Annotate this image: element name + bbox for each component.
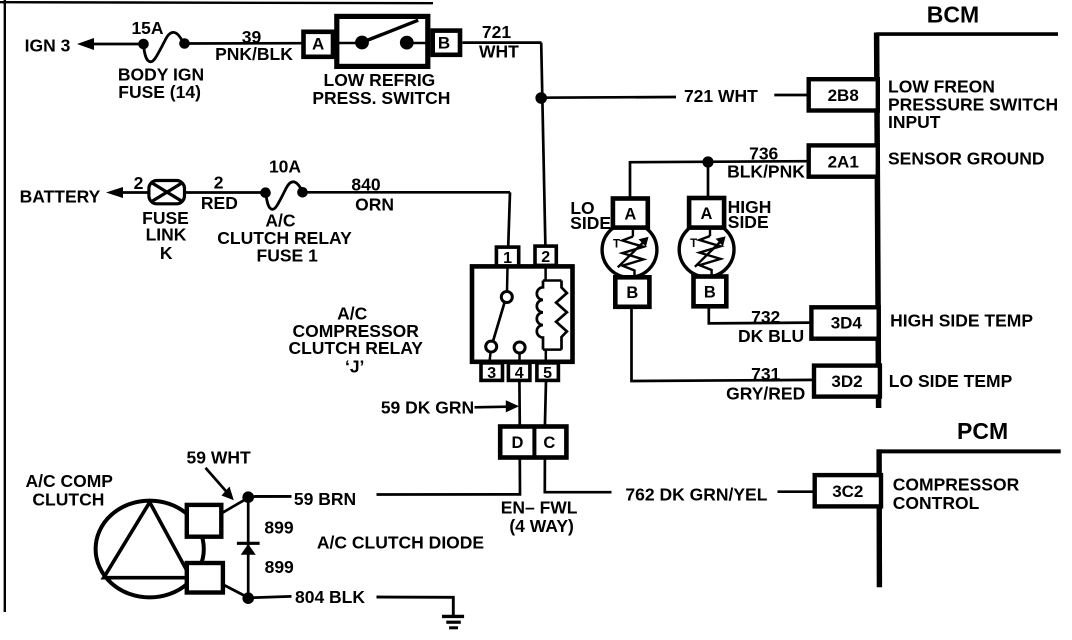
connector 2A1: [809, 145, 878, 176]
svg-text:721 WHT: 721 WHT: [684, 86, 758, 106]
svg-text:59 DK GRN: 59 DK GRN: [381, 398, 474, 418]
label COMPRESSOR CONTROL: [893, 475, 1020, 513]
relay switch blade: [493, 302, 505, 341]
svg-text:FUSE 1: FUSE 1: [257, 246, 319, 266]
wire contact to pin 4: [518, 353, 521, 363]
label A/C COMP CLUTCH: [25, 471, 113, 509]
wire IGN3 to fuse: [92, 43, 144, 46]
wire D down: [377, 458, 521, 495]
wire 59 BRN left segment from junction: [248, 495, 291, 498]
svg-text:B: B: [438, 34, 450, 53]
svg-text:2: 2: [541, 249, 550, 266]
svg-text:59 BRN: 59 BRN: [294, 489, 356, 509]
connector 2B8: [809, 79, 878, 110]
svg-text:899: 899: [264, 517, 293, 537]
svg-text:SIDE: SIDE: [570, 213, 611, 233]
wire to HIGH side sensor: [707, 162, 710, 198]
svg-text:WHT: WHT: [479, 42, 519, 62]
compressor clutch: [96, 501, 223, 598]
connector 3C2: [815, 475, 881, 506]
svg-text:‘J’: ‘J’: [345, 357, 364, 377]
svg-text:IGN 3: IGN 3: [25, 35, 71, 55]
wire pin1 to contact: [506, 266, 509, 291]
wire 59 BRN: [255, 489, 357, 509]
relay contact top: [501, 292, 512, 303]
svg-text:3D2: 3D2: [831, 372, 862, 391]
wire 736 BLK/PNK: [630, 144, 809, 182]
svg-text:RED: RED: [201, 193, 238, 213]
label LOW FREON PRESSURE SWITCH INPUT: [888, 77, 1058, 132]
svg-text:K: K: [160, 243, 173, 263]
svg-text:COMPRESSOR: COMPRESSOR: [893, 475, 1020, 495]
wire pin2 to coil: [544, 265, 547, 280]
svg-text:LINK: LINK: [146, 225, 187, 245]
wire 39 PNK/BLK: [185, 27, 304, 64]
svg-text:804 BLK: 804 BLK: [295, 587, 365, 607]
svg-text:59 WHT: 59 WHT: [187, 447, 251, 467]
svg-text:3C2: 3C2: [832, 482, 863, 501]
wire pin 5 to connector C: [545, 380, 546, 426]
svg-text:CLUTCH: CLUTCH: [32, 489, 104, 509]
wire coil to pin 5: [545, 350, 548, 363]
label A/C COMPRESSOR CLUTCH RELAY 'J': [288, 303, 423, 376]
svg-text:GRY/RED: GRY/RED: [726, 384, 805, 404]
label HIGH SIDE: [728, 197, 772, 232]
svg-text:A/C COMP: A/C COMP: [25, 471, 113, 491]
svg-text:SIDE: SIDE: [728, 212, 769, 232]
sensor LO side: [602, 199, 657, 307]
ground: [442, 616, 464, 627]
svg-text:BATTERY: BATTERY: [20, 186, 101, 206]
svg-text:PRESS. SWITCH: PRESS. SWITCH: [312, 88, 450, 108]
svg-text:INPUT: INPUT: [888, 112, 941, 132]
svg-text:899: 899: [265, 557, 294, 577]
node junction 736: [702, 156, 713, 167]
svg-text:BLK/PNK: BLK/PNK: [727, 162, 805, 182]
svg-text:BCM: BCM: [927, 1, 979, 27]
PCM boundary: [877, 449, 1061, 587]
switch LOW REFRIG PRESS. SWITCH: [304, 16, 461, 107]
svg-text:T: T: [690, 238, 697, 250]
svg-text:840: 840: [351, 175, 380, 195]
relay contact lower-left: [486, 341, 497, 352]
svg-text:T: T: [613, 239, 620, 251]
svg-text:EN– FWL: EN– FWL: [501, 498, 578, 518]
wire to LO side sensor: [629, 161, 632, 199]
node diode bottom junction: [242, 592, 254, 604]
svg-text:A/C CLUTCH DIODE: A/C CLUTCH DIODE: [317, 533, 484, 553]
wire upper terminal to diode node: [221, 497, 249, 513]
node diode top junction: [242, 491, 254, 503]
svg-text:D: D: [511, 434, 523, 452]
relay pin 5: [537, 363, 559, 382]
svg-text:B: B: [626, 284, 638, 302]
wire 732 DK BLU: [709, 306, 812, 346]
wire 721 WHT from switch: [462, 22, 541, 61]
wire 2 RED: [185, 173, 266, 214]
svg-text:2: 2: [214, 173, 224, 193]
relay pin 1: [496, 247, 518, 267]
connector 3D2: [814, 366, 880, 397]
node IGN 3: [25, 35, 94, 55]
svg-text:C: C: [543, 434, 555, 452]
svg-text:ORN: ORN: [355, 195, 394, 215]
svg-text:CLUTCH RELAY: CLUTCH RELAY: [288, 338, 423, 358]
wire lower terminal to diode node: [223, 585, 249, 599]
svg-text:A: A: [624, 205, 636, 223]
svg-text:PNK/BLK: PNK/BLK: [215, 44, 293, 64]
connector 3D4: [811, 307, 878, 338]
node BATTERY: [20, 186, 123, 206]
wire 840 ORN: [303, 175, 511, 215]
svg-text:15A: 15A: [131, 18, 163, 38]
svg-text:SENSOR GROUND: SENSOR GROUND: [888, 149, 1045, 169]
svg-text:B: B: [704, 283, 716, 301]
svg-text:HIGH SIDE TEMP: HIGH SIDE TEMP: [890, 311, 1033, 331]
relay coil: [537, 281, 567, 350]
fuse BODY IGN FUSE (14) 15A: [118, 18, 204, 102]
node junction 721: [535, 92, 547, 104]
svg-text:5: 5: [543, 365, 552, 382]
svg-text:2: 2: [134, 173, 144, 193]
label 59 DK GRN with arrow: [381, 398, 519, 418]
fuse A/C CLUTCH RELAY FUSE 1 10A: [217, 156, 352, 265]
svg-text:2A1: 2A1: [828, 152, 859, 171]
svg-text:3D4: 3D4: [831, 313, 863, 332]
label LO SIDE: [570, 198, 611, 233]
wire 762 DK GRN/YEL: [625, 485, 813, 505]
svg-text:(4 WAY): (4 WAY): [509, 516, 574, 536]
svg-text:10A: 10A: [269, 156, 301, 176]
relay pin 4: [508, 363, 530, 382]
svg-text:PCM: PCM: [957, 418, 1008, 444]
connector EN-FWL D/C: [500, 427, 578, 537]
svg-text:4: 4: [515, 365, 524, 382]
svg-text:736: 736: [749, 144, 778, 164]
BCM boundary: [876, 33, 1058, 409]
svg-text:731: 731: [751, 364, 780, 384]
svg-text:721: 721: [482, 22, 511, 42]
svg-text:CONTROL: CONTROL: [893, 493, 980, 513]
svg-text:732: 732: [751, 307, 780, 327]
svg-text:LO SIDE TEMP: LO SIDE TEMP: [889, 371, 1013, 391]
svg-text:2B8: 2B8: [828, 86, 859, 105]
svg-text:A: A: [312, 35, 324, 54]
relay pin 2: [535, 246, 556, 266]
wire pin 4 to connector D: [518, 380, 521, 426]
wire contact to pin 3: [489, 352, 490, 363]
wire 804 BLK: [248, 587, 453, 616]
svg-text:762 DK GRN/YEL: 762 DK GRN/YEL: [625, 485, 767, 505]
svg-text:FUSE (14): FUSE (14): [118, 82, 201, 102]
wire trunk vertical to relay pin 2: [541, 43, 545, 247]
svg-text:3: 3: [487, 365, 496, 382]
wire battery to fuse link: [121, 173, 150, 193]
relay contact lower-mid: [514, 342, 525, 353]
relay pin 3: [481, 363, 503, 382]
wire down to relay pin 1: [508, 192, 510, 247]
relay A/C COMPRESSOR CLUTCH RELAY 'J' box: [472, 266, 573, 361]
svg-text:DK BLU: DK BLU: [738, 326, 804, 346]
diode A/C CLUTCH DIODE: [237, 497, 484, 598]
fuse link K: [142, 181, 189, 263]
label 59 WHT with arrow: [187, 447, 251, 500]
wire 731 GRY/RED: [632, 307, 815, 404]
wire 721 WHT branch to BCM 2B8: [541, 86, 808, 106]
svg-text:A: A: [701, 205, 713, 223]
wire C down: [545, 458, 612, 493]
sensor HIGH side: [679, 198, 734, 306]
